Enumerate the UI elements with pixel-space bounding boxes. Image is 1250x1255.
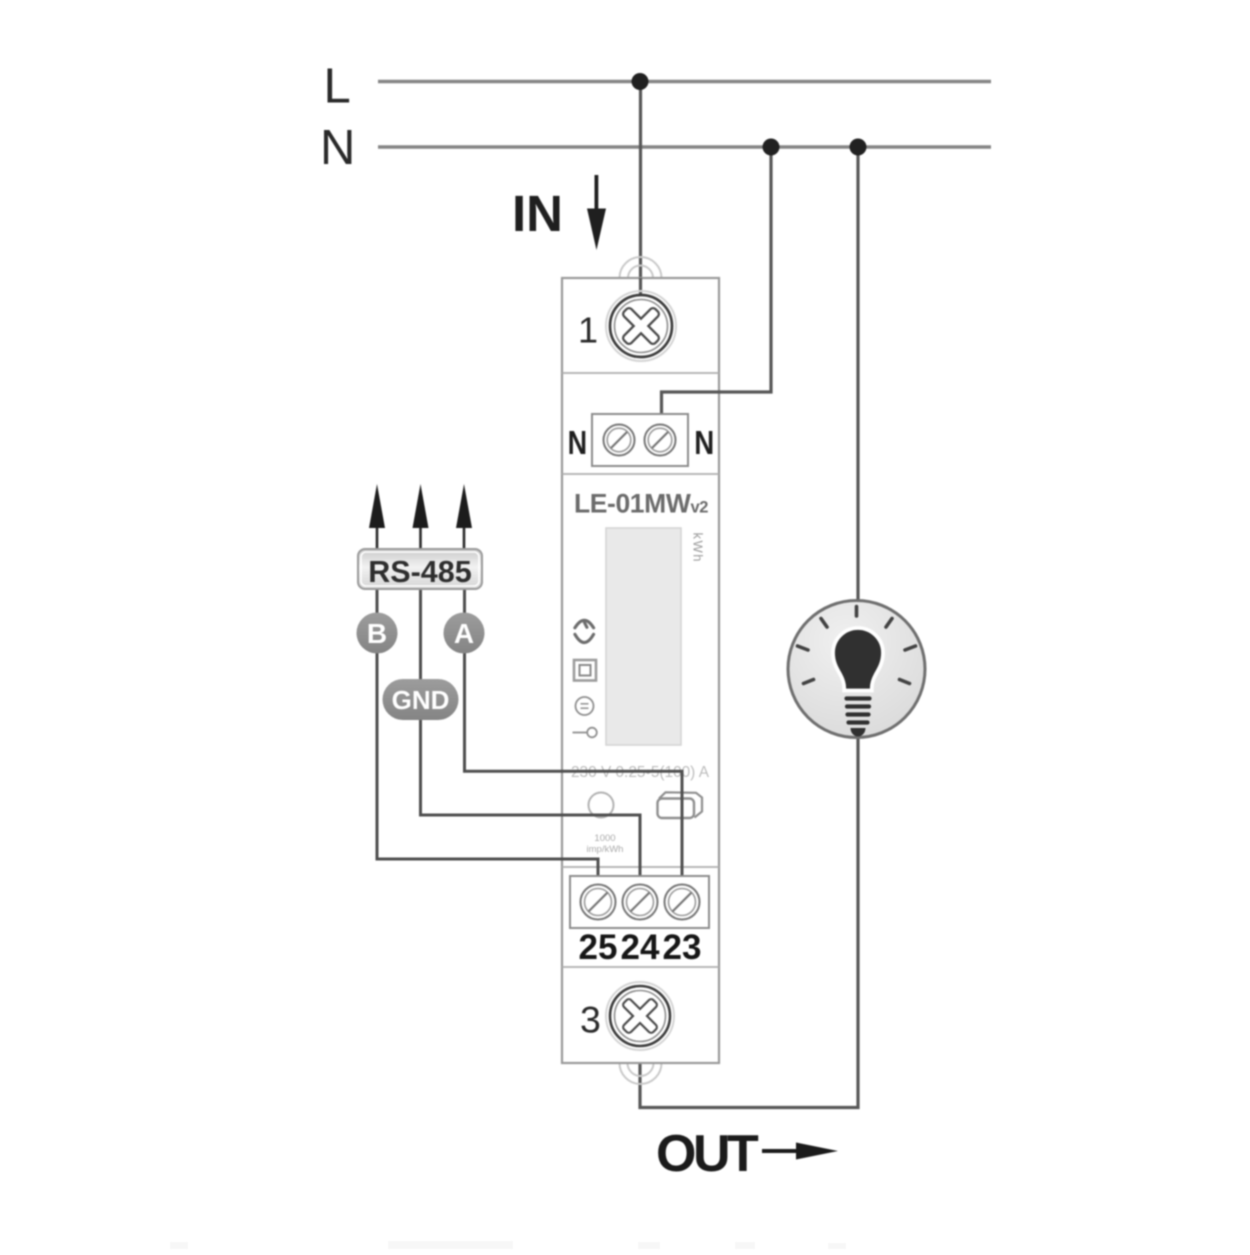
svg-text:24: 24 — [621, 928, 660, 967]
lamp load circle — [788, 601, 925, 738]
terminal screw 25 — [581, 885, 616, 920]
wire A to terminal 23 — [465, 589, 683, 898]
RS-485 arrow 3 — [463, 527, 466, 551]
svg-text:B: B — [367, 618, 387, 649]
meter LE-01MW body outline — [562, 278, 719, 1063]
wire L drop inside meter — [639, 278, 642, 326]
svg-text:3: 3 — [580, 999, 601, 1041]
svg-text:N: N — [320, 121, 355, 175]
svg-text:LE-01MWv2: LE-01MWv2 — [574, 489, 708, 519]
junction dot N1 — [763, 139, 780, 156]
RS-485 arrow 1 — [376, 527, 379, 551]
junction dot L — [632, 73, 649, 90]
svg-text:GND: GND — [392, 685, 450, 715]
wire N bus to lamp and meter OUT wire — [640, 147, 858, 1108]
RS-485 arrow 2 — [419, 527, 422, 551]
pulse output icon — [573, 732, 588, 734]
svg-text:1: 1 — [578, 310, 598, 351]
CE mark — [575, 620, 594, 642]
wire GND to terminal 24 — [421, 589, 641, 898]
svg-text:RS-485: RS-485 — [368, 555, 471, 589]
svg-text:1000: 1000 — [594, 833, 615, 844]
OUT arrow — [762, 1149, 798, 1153]
RS-485 box — [358, 549, 482, 589]
svg-text:23: 23 — [663, 928, 702, 967]
svg-text:kWh: kWh — [691, 533, 706, 564]
svg-text:A: A — [454, 618, 474, 649]
node GND — [383, 679, 459, 720]
svg-text:N: N — [568, 425, 588, 462]
wire N bus to N terminal — [662, 147, 772, 438]
svg-text:IN: IN — [512, 185, 563, 242]
class II insulation icon — [574, 660, 596, 681]
junction dot N2 — [850, 139, 867, 156]
meter mounting tab bottom — [620, 1063, 662, 1084]
terminal 3 screw — [606, 982, 674, 1050]
terminal 1 screw — [606, 291, 676, 361]
lamp rays — [798, 607, 916, 684]
LED indicator — [589, 793, 614, 818]
net L bus line — [378, 80, 991, 83]
terminal screw 24 — [623, 885, 658, 920]
output terminal block — [570, 876, 709, 928]
svg-text:imp/kWh: imp/kWh — [587, 844, 624, 855]
wire B to terminal 25 — [377, 589, 598, 898]
wire L to terminal 1 — [639, 81, 642, 320]
N block screw right — [645, 425, 676, 456]
node A — [444, 613, 485, 654]
terminal screw 23 — [665, 885, 700, 920]
svg-text:L: L — [324, 60, 351, 114]
meter mounting tab top — [620, 257, 662, 278]
N terminal block — [592, 414, 688, 466]
seal icon — [576, 697, 594, 715]
LCD display — [606, 528, 681, 745]
N block screw left — [604, 425, 635, 456]
meter divider lines — [562, 372, 719, 374]
svg-text:OUT: OUT — [656, 1125, 759, 1183]
net N bus line — [378, 145, 991, 148]
faint scan artifacts bottom — [170, 1241, 846, 1249]
svg-text:N: N — [694, 425, 714, 462]
node B — [357, 613, 398, 654]
svg-text:25: 25 — [579, 928, 618, 967]
lamp bulb — [833, 628, 883, 737]
seal connector icon — [658, 792, 703, 818]
IN arrow — [595, 175, 599, 212]
